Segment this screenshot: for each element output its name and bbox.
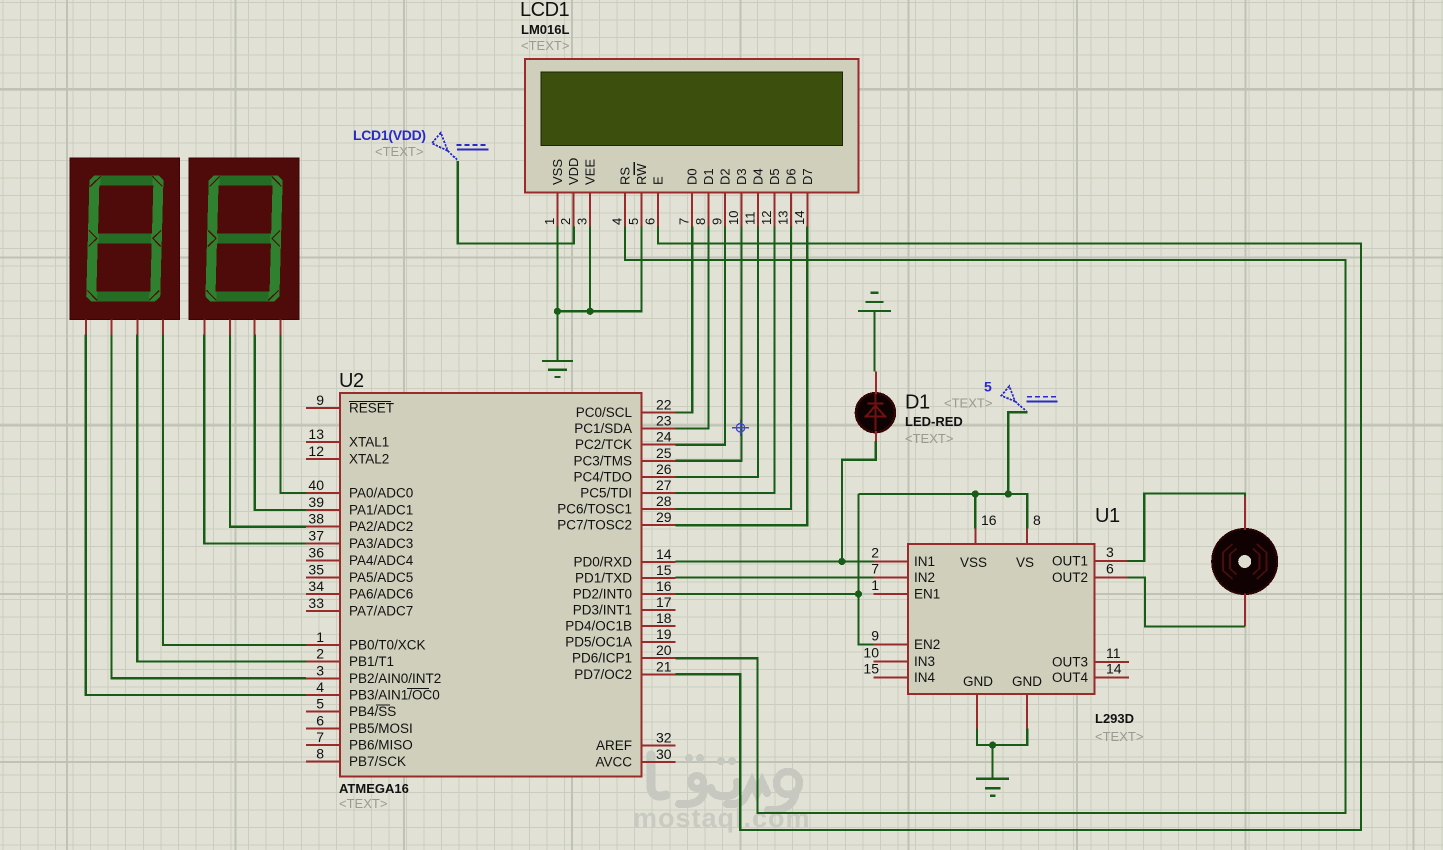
svg-text:PC3/TMS: PC3/TMS bbox=[573, 453, 632, 468]
svg-text:D5: D5 bbox=[767, 168, 782, 185]
U1 pin 7 IN2 bbox=[871, 561, 935, 586]
U2 pin 25 PC3/TMS bbox=[573, 445, 675, 469]
svg-text:PB3/AIN1/OC0: PB3/AIN1/OC0 bbox=[349, 688, 440, 703]
junction (992.6,745.1) bbox=[989, 742, 996, 749]
LCD pin 13 D6 bbox=[775, 168, 798, 226]
ground LCD bbox=[542, 361, 573, 377]
svg-text:8: 8 bbox=[316, 746, 324, 762]
svg-text:VSS: VSS bbox=[550, 159, 565, 185]
U1 pin 15 IN4 bbox=[863, 661, 935, 686]
U2 pin 13 XTAL1 bbox=[306, 426, 389, 450]
svg-text:IN2: IN2 bbox=[914, 570, 935, 585]
junction (858.5,594) bbox=[855, 590, 862, 597]
wire LCD RS net to PD6 bbox=[625, 227, 1345, 814]
wire LED cathode branch bbox=[842, 441, 876, 561]
svg-text:34: 34 bbox=[308, 578, 324, 594]
U1 GND pins bbox=[963, 674, 1042, 729]
junction (590.1,311.3) bbox=[587, 308, 594, 315]
svg-text:PD4/OC1B: PD4/OC1B bbox=[565, 619, 632, 634]
wire EN1-EN2 chain bbox=[859, 494, 874, 645]
DS2 pin stub x=254.7 bbox=[254, 319, 256, 334]
svg-text:GND: GND bbox=[1012, 674, 1042, 689]
junction (975.3,494) bbox=[972, 490, 979, 497]
svg-text:PA1/ADC1: PA1/ADC1 bbox=[349, 502, 413, 517]
svg-text:IN3: IN3 bbox=[914, 654, 935, 669]
wire 5V to rail bbox=[1008, 412, 1027, 494]
svg-text:<TEXT>: <TEXT> bbox=[944, 396, 992, 411]
svg-text:36: 36 bbox=[308, 544, 324, 560]
svg-text:7: 7 bbox=[871, 561, 879, 577]
wire DS1 d to PB3 bbox=[86, 335, 306, 695]
LCD pin 3 VEE bbox=[575, 159, 598, 227]
wire OUT1 to motor top bbox=[1127, 494, 1245, 562]
svg-text:PD1/TXD: PD1/TXD bbox=[575, 571, 632, 586]
LCD pin 4 RS bbox=[610, 167, 633, 227]
LCD pin 9 D2 bbox=[710, 168, 733, 226]
U2 pin 23 PC1/SDA bbox=[574, 413, 675, 437]
ground U1 bbox=[976, 779, 1009, 796]
svg-text:D1: D1 bbox=[905, 392, 930, 414]
U2 pin 28 PC6/TOSC1 bbox=[557, 493, 675, 516]
U2 pin 24 PC2/TCK bbox=[575, 429, 675, 453]
motor bbox=[1212, 497, 1277, 627]
junction (1008.2,494) bbox=[1005, 490, 1012, 497]
U2 RESET overline bbox=[349, 401, 391, 403]
svg-text:16: 16 bbox=[656, 578, 672, 594]
svg-text:OUT1: OUT1 bbox=[1052, 554, 1088, 569]
U2 PB3 OC0 overline bbox=[407, 688, 429, 690]
U2 pin 39 PA1/ADC1 bbox=[306, 494, 413, 518]
svg-text:PC5/TDI: PC5/TDI bbox=[580, 486, 632, 501]
svg-text:24: 24 bbox=[656, 429, 672, 445]
svg-text:LED-RED: LED-RED bbox=[905, 414, 963, 429]
svg-text:9: 9 bbox=[316, 392, 324, 408]
LCD pin 2 VDD bbox=[558, 158, 581, 227]
U2 pin 1 PB0/T0/XCK bbox=[306, 629, 426, 653]
U1 pin 14 OUT4 bbox=[1052, 661, 1129, 686]
wire U1 gnd link bbox=[977, 729, 1027, 746]
svg-text:EN1: EN1 bbox=[914, 587, 940, 602]
LCD pin 7 D0 bbox=[677, 168, 700, 226]
wire LCD RW to ground bus bbox=[557, 227, 641, 312]
svg-text:30: 30 bbox=[656, 746, 672, 762]
LED D1 bbox=[856, 372, 895, 442]
svg-text:20: 20 bbox=[656, 642, 672, 658]
U2 pin 16 PD2/INT0 bbox=[573, 578, 676, 602]
svg-text:RW: RW bbox=[634, 163, 649, 185]
wire DS1 a to PB0 bbox=[163, 335, 306, 645]
svg-text:LCD1(VDD): LCD1(VDD) bbox=[353, 127, 426, 143]
svg-text:LM016L: LM016L bbox=[521, 22, 569, 37]
svg-text:2: 2 bbox=[871, 545, 879, 561]
svg-text:5: 5 bbox=[316, 696, 324, 712]
svg-text:19: 19 bbox=[656, 626, 672, 642]
U2 pin 36 PA4/ADC4 bbox=[306, 544, 414, 568]
svg-text:3: 3 bbox=[316, 662, 324, 678]
wire U1 gnd stem bbox=[991, 745, 993, 779]
U2 pin 22 PC0/SCL bbox=[576, 397, 676, 421]
svg-text:PC2/TCK: PC2/TCK bbox=[575, 437, 632, 452]
U2 pin 7 PB6/MISO bbox=[306, 729, 413, 753]
svg-text:14: 14 bbox=[1106, 661, 1122, 677]
svg-text:12: 12 bbox=[308, 443, 324, 459]
wire LCD D0 to PC0 bbox=[675, 227, 692, 413]
svg-text:22: 22 bbox=[656, 397, 672, 413]
svg-text:17: 17 bbox=[656, 594, 672, 610]
svg-text:38: 38 bbox=[308, 511, 324, 527]
svg-text:23: 23 bbox=[656, 413, 672, 429]
7-segment display DS1 bbox=[70, 158, 180, 319]
svg-text:PA7/ADC7: PA7/ADC7 bbox=[349, 604, 413, 619]
ground above LED (inverted) bbox=[858, 293, 891, 311]
svg-text:32: 32 bbox=[656, 730, 672, 746]
svg-text:39: 39 bbox=[308, 494, 324, 510]
wire DS2 d to PA3 bbox=[204, 335, 306, 544]
svg-text:2: 2 bbox=[558, 218, 573, 225]
U2 pin 9 RESET bbox=[306, 392, 394, 416]
U2 pin 12 XTAL2 bbox=[306, 443, 389, 467]
LCD LCD1 labels bbox=[520, 0, 570, 53]
U2 pin 19 PD5/OC1A bbox=[565, 626, 675, 650]
svg-text:D7: D7 bbox=[800, 168, 815, 185]
wire LCD D2 to PC2 bbox=[675, 227, 725, 445]
U2 pin 6 PB5/MOSI bbox=[306, 712, 413, 736]
7-segment display DS2 bbox=[189, 158, 299, 319]
svg-text:XTAL1: XTAL1 bbox=[349, 435, 389, 450]
svg-text:PB7/SCK: PB7/SCK bbox=[349, 754, 406, 769]
svg-text:EN2: EN2 bbox=[914, 637, 940, 652]
svg-text:PA6/ADC6: PA6/ADC6 bbox=[349, 587, 413, 602]
svg-text:PA2/ADC2: PA2/ADC2 bbox=[349, 519, 413, 534]
svg-text:10: 10 bbox=[863, 645, 879, 661]
svg-text:<TEXT>: <TEXT> bbox=[1095, 729, 1143, 744]
U2 pin 20 PD6/ICP1 bbox=[572, 642, 675, 666]
svg-text:D1: D1 bbox=[701, 168, 716, 185]
LCD pin 14 D7 bbox=[792, 168, 815, 226]
driver U1 L293D body bbox=[908, 505, 1143, 744]
U2 pin 8 PB7/SCK bbox=[306, 746, 406, 770]
wire LCD E net to PD7 bbox=[658, 227, 1361, 831]
svg-text:LCD1: LCD1 bbox=[520, 0, 570, 21]
svg-text:PD2/INT0: PD2/INT0 bbox=[573, 587, 632, 602]
U2 pin 32 AREF bbox=[596, 730, 675, 754]
svg-text:PC6/TOSC1: PC6/TOSC1 bbox=[557, 502, 632, 517]
wire LCD VEE down bbox=[589, 227, 591, 312]
U2 pin 37 PA3/ADC3 bbox=[306, 528, 413, 552]
svg-text:PA5/ADC5: PA5/ADC5 bbox=[349, 570, 413, 585]
svg-text:AVCC: AVCC bbox=[595, 755, 632, 770]
DS1 pin stub x=163.0 bbox=[162, 319, 164, 334]
DS1 pin stub x=85.8 bbox=[85, 319, 87, 334]
svg-text:1: 1 bbox=[871, 577, 879, 593]
U1 pin 8 VS bbox=[1016, 512, 1041, 570]
wire LCD D3 to PC3 bbox=[675, 227, 741, 461]
junction (557.4,311.3) bbox=[554, 308, 561, 315]
svg-text:PD5/OC1A: PD5/OC1A bbox=[565, 635, 632, 650]
LCD pin 12 D5 bbox=[759, 168, 782, 226]
svg-text:RESET: RESET bbox=[349, 401, 394, 416]
svg-text:VDD: VDD bbox=[566, 158, 581, 185]
power terminal LCD1(VDD) bbox=[353, 127, 488, 160]
svg-text:ATMEGA16: ATMEGA16 bbox=[339, 781, 409, 796]
U2 pin 17 PD3/INT1 bbox=[573, 594, 676, 618]
svg-text:5: 5 bbox=[984, 379, 992, 395]
LCD LCD1 body bbox=[525, 59, 859, 227]
U2 pin 2 PB1/T1 bbox=[306, 646, 394, 670]
wire LCD D6 to PC6 bbox=[675, 227, 791, 510]
svg-text:7: 7 bbox=[677, 218, 692, 225]
svg-text:XTAL2: XTAL2 bbox=[349, 452, 389, 467]
svg-text:40: 40 bbox=[308, 477, 324, 493]
svg-text:15: 15 bbox=[656, 562, 672, 578]
wire DS2 a to PA0 bbox=[280, 335, 306, 493]
U2 pin 35 PA5/ADC5 bbox=[306, 561, 413, 585]
svg-text:1: 1 bbox=[542, 218, 557, 225]
svg-text:33: 33 bbox=[308, 595, 324, 611]
svg-text:6: 6 bbox=[643, 218, 658, 225]
wire ground stem LCD bbox=[556, 311, 558, 361]
origin marker bbox=[732, 420, 749, 437]
svg-text:29: 29 bbox=[656, 509, 672, 525]
DS2 pin stub x=230.1 bbox=[229, 319, 231, 334]
wire power flag to LCD VDD bbox=[458, 161, 574, 243]
wire LCD D7 to PC7 bbox=[675, 227, 807, 526]
svg-text:AREF: AREF bbox=[596, 738, 632, 753]
LCD screen bbox=[541, 72, 843, 145]
LCD pin 11 D4 bbox=[743, 168, 766, 226]
wire LCD D5 to PC5 bbox=[675, 227, 774, 494]
svg-text:4: 4 bbox=[610, 218, 625, 225]
svg-text:PC7/TOSC2: PC7/TOSC2 bbox=[557, 518, 632, 533]
svg-text:PB0/T0/XCK: PB0/T0/XCK bbox=[349, 638, 426, 653]
svg-text:OUT3: OUT3 bbox=[1052, 655, 1088, 670]
U2 pin 18 PD4/OC1B bbox=[565, 610, 675, 634]
wire DS2 b to PA1 bbox=[255, 335, 306, 510]
svg-text:PB4/SS: PB4/SS bbox=[349, 704, 396, 719]
LED D1 labels bbox=[905, 392, 992, 447]
DS1 pin stub x=137.3 bbox=[136, 319, 138, 334]
svg-text:16: 16 bbox=[981, 512, 997, 528]
svg-text:28: 28 bbox=[656, 493, 672, 509]
svg-text:27: 27 bbox=[656, 477, 672, 493]
svg-text:<TEXT>: <TEXT> bbox=[905, 431, 953, 446]
svg-text:PD6/ICP1: PD6/ICP1 bbox=[572, 651, 632, 666]
svg-text:D4: D4 bbox=[751, 168, 766, 185]
svg-text:9: 9 bbox=[710, 218, 725, 225]
svg-text:11: 11 bbox=[743, 212, 758, 226]
U2 PB4/SS overline bbox=[376, 704, 390, 706]
svg-text:26: 26 bbox=[656, 461, 672, 477]
wire PD0 to U1 IN1 bbox=[675, 560, 873, 562]
svg-text:<TEXT>: <TEXT> bbox=[521, 38, 569, 53]
svg-text:U2: U2 bbox=[339, 370, 364, 392]
svg-text:2: 2 bbox=[316, 646, 324, 662]
U1 pin 3 OUT1 bbox=[1052, 544, 1127, 569]
microcontroller U2 ATMEGA16 body bbox=[339, 370, 641, 811]
svg-text:PD0/RXD: PD0/RXD bbox=[573, 555, 632, 570]
svg-text:D0: D0 bbox=[685, 168, 700, 185]
wire LCD D4 to PC4 bbox=[675, 227, 758, 477]
LCD pin 6 E bbox=[643, 176, 666, 227]
U2 pin 33 PA7/ADC7 bbox=[306, 595, 413, 619]
svg-text:D6: D6 bbox=[783, 168, 798, 185]
svg-text:PC1/SDA: PC1/SDA bbox=[574, 421, 632, 436]
U2 pin 15 PD1/TXD bbox=[575, 562, 675, 586]
U2 pin 26 PC4/TDO bbox=[573, 461, 675, 485]
U2 pin 38 PA2/ADC2 bbox=[306, 511, 413, 535]
LCD pin 10 D3 bbox=[726, 168, 749, 226]
svg-text:1: 1 bbox=[316, 629, 324, 645]
LCD pin 1 VSS bbox=[542, 159, 565, 227]
wire DS1 b to PB1 bbox=[137, 335, 306, 662]
LCD pin 5 RW bbox=[626, 163, 649, 227]
svg-text:IN1: IN1 bbox=[914, 554, 935, 569]
svg-text:PB2/AIN0/INT2: PB2/AIN0/INT2 bbox=[349, 671, 441, 686]
U2 pin 34 PA6/ADC6 bbox=[306, 578, 413, 602]
U2 pin 3 PB2/AIN0/INT2 bbox=[306, 662, 441, 686]
svg-text:VEE: VEE bbox=[583, 159, 598, 185]
DS2 pin stub x=204.3 bbox=[203, 319, 205, 334]
watermark mostaql bbox=[633, 754, 811, 833]
svg-text:11: 11 bbox=[1106, 645, 1121, 661]
wire PD2 to EN1 bbox=[675, 593, 858, 595]
svg-text:7: 7 bbox=[316, 729, 324, 745]
svg-text:3: 3 bbox=[1106, 544, 1114, 560]
svg-text:10: 10 bbox=[726, 211, 741, 225]
svg-text:37: 37 bbox=[308, 528, 324, 544]
svg-text:6: 6 bbox=[316, 712, 324, 728]
svg-text:PA3/ADC3: PA3/ADC3 bbox=[349, 536, 413, 551]
svg-text:VS: VS bbox=[1016, 555, 1034, 570]
svg-text:L293D: L293D bbox=[1095, 711, 1134, 726]
U2 pin 4 PB3/AIN1/OC0 bbox=[306, 679, 440, 703]
svg-text:E: E bbox=[651, 176, 666, 185]
svg-text:4: 4 bbox=[316, 679, 324, 695]
svg-text:PD3/INT1: PD3/INT1 bbox=[573, 603, 632, 618]
svg-text:14: 14 bbox=[792, 211, 807, 225]
svg-text:RS: RS bbox=[618, 167, 633, 185]
power terminal 5V bbox=[984, 379, 1058, 412]
svg-text:GND: GND bbox=[963, 674, 993, 689]
svg-text:PD7/OC2: PD7/OC2 bbox=[574, 667, 632, 682]
U1 pin 11 OUT3 bbox=[1052, 645, 1129, 670]
DS2 pin stub x=280.4 bbox=[279, 319, 281, 334]
svg-text:25: 25 bbox=[656, 445, 672, 461]
svg-text:6: 6 bbox=[1106, 561, 1114, 577]
svg-text:13: 13 bbox=[775, 211, 790, 225]
svg-text:8: 8 bbox=[693, 218, 708, 225]
svg-text:VSS: VSS bbox=[960, 555, 987, 570]
wire OUT2 to motor bottom bbox=[1127, 578, 1245, 627]
U1 pin 16 VSS bbox=[960, 512, 997, 570]
U1 pin 10 IN3 bbox=[863, 645, 935, 670]
DS1 pin stub x=111.6 bbox=[111, 319, 113, 334]
svg-text:8: 8 bbox=[1033, 512, 1041, 528]
svg-text:15: 15 bbox=[863, 661, 879, 677]
svg-text:14: 14 bbox=[656, 546, 672, 562]
svg-text:PC0/SCL: PC0/SCL bbox=[576, 405, 633, 420]
wire VSS-VS power rail bbox=[859, 494, 1028, 529]
wire DS2 c to PA2 bbox=[230, 335, 306, 527]
svg-text:OUT2: OUT2 bbox=[1052, 570, 1088, 585]
svg-text:IN4: IN4 bbox=[914, 670, 936, 685]
svg-text:9: 9 bbox=[871, 628, 879, 644]
svg-text:OUT4: OUT4 bbox=[1052, 670, 1088, 685]
wire PD1 to U1 IN2 bbox=[675, 576, 873, 578]
svg-text:5: 5 bbox=[626, 218, 641, 225]
svg-text:U1: U1 bbox=[1095, 505, 1120, 527]
U2 pin 21 PD7/OC2 bbox=[574, 658, 675, 682]
svg-text:PB6/MISO: PB6/MISO bbox=[349, 737, 413, 752]
svg-text:3: 3 bbox=[575, 218, 590, 225]
wire LCD VSS down bbox=[556, 227, 558, 312]
wire DS1 c to PB2 bbox=[112, 335, 306, 679]
svg-text:PA0/ADC0: PA0/ADC0 bbox=[349, 486, 413, 501]
svg-text:<TEXT>: <TEXT> bbox=[375, 144, 423, 159]
U2 pin 5 PB4/SS bbox=[306, 696, 396, 720]
svg-text:35: 35 bbox=[308, 561, 324, 577]
wire LED anode to gnd stem bbox=[873, 311, 875, 372]
svg-text:21: 21 bbox=[656, 658, 672, 674]
svg-text:13: 13 bbox=[308, 426, 324, 442]
U2 pin 30 AVCC bbox=[595, 746, 675, 770]
wire VSS tap bbox=[974, 494, 976, 529]
svg-text:mostaql.com: mostaql.com bbox=[633, 803, 811, 833]
LCD RW overline bbox=[633, 162, 635, 175]
svg-text:D3: D3 bbox=[734, 168, 749, 185]
svg-text:12: 12 bbox=[759, 211, 774, 225]
wire LCD D1 to PC1 bbox=[675, 227, 708, 429]
svg-text:PC4/TDO: PC4/TDO bbox=[573, 469, 632, 484]
junction (842,561.5) bbox=[838, 558, 845, 565]
svg-text:PB5/MOSI: PB5/MOSI bbox=[349, 721, 413, 736]
svg-text:D2: D2 bbox=[718, 168, 733, 185]
U2 pin 27 PC5/TDI bbox=[580, 477, 675, 501]
U2 pin 14 PD0/RXD bbox=[573, 546, 675, 570]
U1 pin 2 IN1 bbox=[871, 545, 935, 570]
U1 pin 6 OUT2 bbox=[1052, 561, 1127, 586]
U2 pin 29 PC7/TOSC2 bbox=[557, 509, 675, 533]
svg-text:18: 18 bbox=[656, 610, 672, 626]
U1 pin 1 EN1 bbox=[871, 577, 940, 602]
svg-text:<TEXT>: <TEXT> bbox=[339, 796, 387, 811]
LCD pin 8 D1 bbox=[693, 168, 716, 226]
U1 pin 9 EN2 bbox=[871, 628, 940, 653]
svg-text:PA4/ADC4: PA4/ADC4 bbox=[349, 553, 414, 568]
U2 pin 40 PA0/ADC0 bbox=[306, 477, 413, 501]
svg-text:PB1/T1: PB1/T1 bbox=[349, 654, 394, 669]
